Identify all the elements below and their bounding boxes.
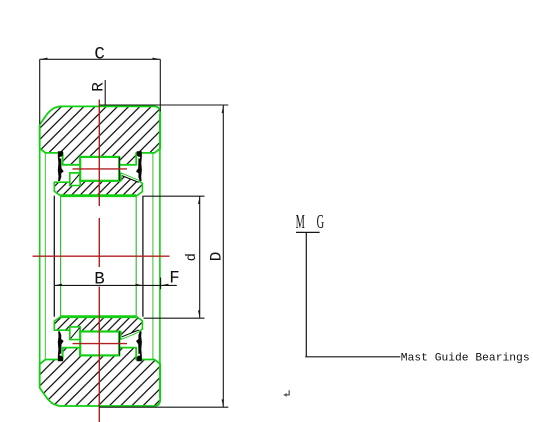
seal top-left (black)	[58, 151, 64, 181]
dimension R leader line	[104, 80, 106, 105]
inner ring bottom section (hatched)	[54, 317, 142, 340]
svg-text:F: F	[169, 269, 180, 289]
seal bottom-right (black)	[136, 331, 142, 361]
logo vertical connector line	[305, 232, 307, 356]
roller top (white with green outline)	[80, 157, 119, 181]
centerline top roller axis (red)	[73, 168, 128, 170]
seal bottom-left (black)	[58, 331, 64, 361]
dimension d line	[199, 196, 201, 318]
dimension D arrows	[222, 105, 224, 407]
dimension d extension lines	[144, 196, 205, 318]
inner ring top rib hatch line	[71, 174, 80, 185]
outer ring top section (hatched)	[40, 106, 161, 164]
inner ring top section (hatched)	[54, 173, 142, 196]
inner ring left face edge in bore (black)	[53, 196, 55, 317]
svg-text:R: R	[90, 82, 108, 92]
dimension F arrow	[161, 284, 169, 286]
logo horizontal connector line	[305, 356, 400, 358]
logo underline	[296, 231, 320, 233]
outer ring left outer face silhouette (green)	[39, 126, 41, 387]
seal top-right (black)	[136, 151, 142, 181]
carriage return mark (gray)	[286, 390, 289, 395]
centerline vertical axis (red)	[98, 100, 100, 422]
centerline bottom roller axis (red)	[73, 343, 128, 345]
outer ring left recess silhouette line (green)	[44, 154, 46, 360]
svg-text:d: d	[185, 253, 200, 261]
roller bottom (white with green outline)	[80, 332, 119, 356]
outer ring bottom section (hatched)	[40, 348, 161, 406]
inner ring top rib detail (green)	[70, 173, 80, 186]
outer ring right outer face silhouette (green)	[159, 114, 161, 398]
inner ring bottom rib detail (green)	[70, 327, 80, 340]
inner ring bottom rib hatch line	[71, 328, 80, 339]
inner ring left bore chamfer silhouette (green)	[60, 196, 62, 317]
dimension C arrows	[40, 58, 161, 60]
inner ring bottom cone face (white band)	[122, 331, 139, 338]
dimension C line	[40, 58, 161, 60]
centerline horizontal main axis (red)	[33, 255, 170, 257]
dimension B line	[54, 284, 143, 286]
roller top right black edge	[119, 157, 121, 181]
inner ring top cone face (white band)	[122, 175, 139, 182]
inner ring right face edge in bore (black)	[142, 196, 144, 317]
dimension C extension lines	[40, 59, 161, 124]
svg-text:B: B	[94, 270, 105, 290]
outer ring right recess silhouette line (green)	[152, 154, 154, 360]
dimension D extension lines	[99, 105, 228, 407]
inner ring right bore chamfer silhouette (green)	[135, 196, 137, 317]
dimension d arrows	[198, 196, 200, 318]
inner ring top cone edge (black)	[122, 176, 139, 183]
svg-text:C: C	[94, 45, 105, 65]
svg-text:M: M	[296, 212, 305, 233]
dimension D line	[222, 105, 224, 407]
dimension F line and extension	[143, 278, 177, 290]
svg-text:Mast Guide Bearings: Mast Guide Bearings	[401, 352, 530, 364]
inner ring bottom cone edge (black)	[122, 330, 139, 337]
svg-text:G: G	[317, 212, 325, 233]
inner ring bore upper silhouette (green thick)	[61, 194, 137, 197]
svg-text:D: D	[207, 252, 225, 262]
inner ring bore lower silhouette (green thick)	[61, 315, 137, 318]
dimension B arrows	[54, 284, 143, 286]
roller bottom right black edge	[119, 332, 121, 356]
